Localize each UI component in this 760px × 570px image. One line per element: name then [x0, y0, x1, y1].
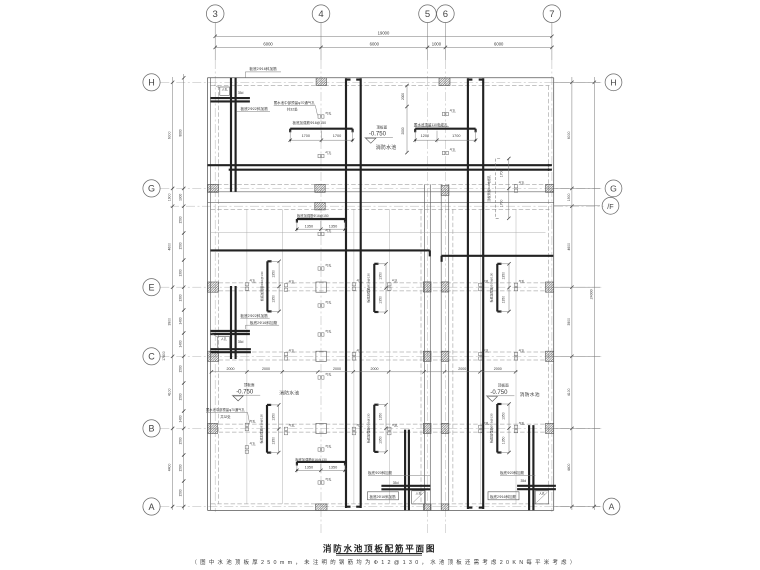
rebar vertical mid-right 1: [468, 78, 473, 509]
svg-text:气孔: 气孔: [392, 423, 398, 428]
note slab bottom 2D16 left tank: [368, 492, 399, 500]
axis bubble E left: [143, 279, 160, 296]
svg-text:1350: 1350: [502, 272, 506, 280]
axis stem 7: [551, 23, 553, 61]
vent hole: [318, 150, 331, 158]
wall left inner: [210, 78, 212, 511]
column outline grid4 x B: [316, 423, 326, 433]
svg-text:-0.750: -0.750: [490, 390, 508, 396]
svg-text:1300: 1300: [179, 294, 183, 301]
svg-text:消防水池: 消防水池: [279, 390, 299, 397]
svg-text:E: E: [148, 283, 154, 293]
wall left inner dashed: [218, 86, 220, 504]
beam row E upper dashed: [219, 282, 546, 284]
grid line H horizontal: [160, 81, 603, 83]
grid line B horizontal: [160, 427, 603, 429]
svg-text:1350: 1350: [272, 270, 276, 278]
wall right inner dashed: [548, 86, 550, 504]
note vent holes phi70 top: [274, 100, 318, 115]
svg-text:6000: 6000: [263, 41, 273, 46]
column outline grid4 x C: [316, 351, 326, 361]
column joint2 x G: [441, 186, 449, 196]
vent hole: [245, 441, 255, 453]
rebar vertical bottom-left tank 1: [404, 430, 406, 511]
svg-text:8000: 8000: [179, 129, 183, 136]
title underline thick: [336, 553, 422, 555]
tank right inner dashed left edge: [452, 209, 454, 504]
svg-text:2000: 2000: [333, 367, 341, 371]
svg-text:/F: /F: [607, 202, 614, 211]
svg-text:1500: 1500: [179, 242, 183, 249]
vent hole: [318, 300, 331, 307]
svg-text:6000: 6000: [168, 131, 172, 139]
svg-text:气孔: 气孔: [325, 263, 331, 268]
rebar bar with dim 1700+1700 left tank top: [289, 129, 355, 143]
wall band F upper: [208, 201, 554, 203]
svg-text:4400: 4400: [567, 464, 571, 472]
column joint2 x E: [441, 282, 449, 292]
svg-text:3900: 3900: [567, 318, 571, 326]
beam row C lower dashed: [219, 359, 546, 361]
svg-text:蓄水池中部预留φ70通气孔: 蓄水池中部预留φ70通气孔: [206, 407, 245, 412]
svg-text:板底2Φ16斜加筋: 板底2Φ16斜加筋: [250, 320, 278, 325]
rebar bar with dim 1350+1350 left tank G-E: [295, 219, 347, 231]
rebar+dim 1350x2 left tank lower-right: [366, 403, 388, 454]
manhole left-C: [211, 333, 230, 348]
wall top inner dashed: [211, 85, 550, 87]
rebar+dim 1350x2 right tank lower: [489, 402, 511, 454]
svg-text:人孔: 人孔: [222, 87, 228, 92]
svg-text:1200: 1200: [421, 134, 429, 138]
column joint1 x A: [423, 504, 431, 511]
joint wall 2 left edge: [440, 184, 442, 510]
svg-text:35d: 35d: [238, 91, 244, 95]
joint wall 1 right edge: [429, 184, 431, 510]
vent hole: [514, 279, 524, 291]
vent line left tank: [281, 209, 283, 504]
svg-text:1350: 1350: [502, 412, 506, 420]
column joint2 x C: [441, 351, 449, 361]
svg-text:G: G: [610, 184, 617, 194]
svg-text:气孔: 气孔: [250, 278, 256, 283]
svg-text:2000: 2000: [401, 93, 405, 100]
svg-text:气孔: 气孔: [325, 111, 331, 116]
rebar horizontal bottom-right 2: [517, 488, 556, 490]
rebar horizontal C cluster 4: [210, 351, 251, 353]
svg-text:H: H: [148, 78, 155, 88]
grid line 5 vertical: [427, 60, 429, 535]
svg-text:气孔: 气孔: [250, 419, 256, 424]
svg-text:1000: 1000: [432, 41, 442, 46]
rebar vertical mid-left 2: [356, 78, 361, 508]
svg-text:7: 7: [549, 9, 554, 20]
manhole bottom-mid: [412, 490, 426, 504]
vent hole: [245, 419, 255, 431]
svg-text:气孔: 气孔: [519, 348, 525, 353]
svg-text:板底Φ20斜加筋: 板底Φ20斜加筋: [500, 470, 525, 475]
rebar+dim 1350x2 left tank upper-right: [366, 262, 388, 314]
svg-text:1900: 1900: [567, 193, 571, 201]
column grid4 x G: [315, 184, 325, 192]
rebar horizontal bottom-right 1: [517, 485, 556, 487]
axis stem 5: [427, 23, 429, 61]
svg-text:气孔: 气孔: [450, 147, 456, 152]
svg-text:2000: 2000: [401, 127, 405, 134]
axis bubble 1/F right: [602, 197, 619, 214]
grid line F horizontal: [170, 205, 604, 207]
svg-text:-0.750: -0.750: [236, 389, 254, 395]
rebar bar with dim 1350+1350 left tank bottom: [295, 462, 347, 473]
column left wall x B: [208, 423, 218, 433]
svg-text:1350: 1350: [305, 466, 313, 470]
axis bubble C left: [143, 348, 160, 365]
rebar horizontal top-left 1: [210, 97, 250, 99]
svg-text:17800: 17800: [162, 351, 166, 361]
svg-text:4: 4: [318, 9, 323, 20]
svg-text:1400: 1400: [179, 340, 183, 347]
svg-text:（图中水池顶板厚250mm，未注明的钢筋均为Φ12@130，: （图中水池顶板厚250mm，未注明的钢筋均为Φ12@130，水池顶板还需考虑20…: [191, 558, 578, 566]
svg-text:气孔: 气孔: [325, 477, 331, 482]
beam row C upper dashed: [219, 351, 546, 353]
vent hole: [388, 278, 398, 290]
rebar+dim 1350x2 right tank upper: [489, 262, 511, 313]
joint wall 1 left edge: [423, 184, 425, 510]
svg-text:1300: 1300: [179, 269, 183, 276]
svg-text:气孔: 气孔: [325, 444, 331, 449]
svg-text:气孔: 气孔: [289, 423, 295, 428]
svg-text:2000: 2000: [458, 367, 466, 371]
rebar vertical bottom-right tank 2: [532, 425, 534, 510]
svg-text:35d: 35d: [393, 481, 399, 485]
rebar vertical left-top 2: [235, 78, 237, 192]
vent hole: [442, 108, 455, 116]
svg-text:A: A: [148, 502, 154, 512]
dimension chain top 6000/6000/1000/6000: [214, 41, 554, 49]
svg-text:1500: 1500: [179, 365, 183, 372]
column left wall x G: [208, 184, 219, 192]
vent hole: [284, 423, 294, 435]
svg-text:1700: 1700: [500, 200, 504, 208]
column outline grid4 x E: [316, 282, 326, 292]
vent line left tank: [246, 209, 248, 504]
vent line right tank: [515, 209, 517, 504]
svg-text:蓄水池顶留110电缆孔: 蓄水池顶留110电缆孔: [414, 122, 448, 127]
rebar horizontal long 1: [208, 164, 552, 167]
vent hole: [318, 228, 331, 236]
svg-text:板底2Φ22斜加筋: 板底2Φ22斜加筋: [240, 313, 268, 318]
wall bottom inner dashed: [211, 503, 550, 505]
svg-text:1700: 1700: [333, 134, 341, 138]
svg-text:4400: 4400: [168, 464, 172, 472]
svg-text:5: 5: [425, 9, 430, 20]
wall left outer: [207, 78, 209, 511]
dimension total 19000 top: [214, 30, 554, 38]
axis bubble B left: [143, 420, 160, 437]
note slab bottom 2D22 above C cluster: [240, 313, 269, 318]
svg-text:顶板预留110电缆孔: 顶板预留110电缆孔: [486, 175, 491, 202]
grid line G horizontal: [160, 187, 603, 189]
svg-text:1400: 1400: [179, 317, 183, 324]
svg-text:-0.750: -0.750: [369, 132, 387, 138]
svg-text:人孔: 人孔: [221, 336, 227, 341]
beam row B upper dashed: [219, 423, 546, 425]
svg-text:1350: 1350: [272, 295, 276, 303]
note slab bottom 2D16 right tank: [488, 492, 519, 500]
beam row E lower dashed: [219, 290, 546, 292]
axis bubble H left: [143, 74, 160, 91]
rebar vertical bottom-left tank 2: [408, 430, 410, 511]
vent hole: [284, 348, 294, 360]
rebar vertical bottom-right tank 1: [528, 425, 530, 510]
svg-text:气孔: 气孔: [450, 108, 456, 113]
column left wall x C: [208, 351, 219, 361]
note slab bottom 2D22 top-left: [237, 106, 270, 112]
svg-text:2000: 2000: [371, 367, 379, 371]
grid line 7 vertical: [551, 60, 553, 512]
column grid4 x A: [316, 504, 328, 511]
svg-text:板底加强筋Φ16@130: 板底加强筋Φ16@130: [366, 273, 371, 303]
vent hole: [352, 423, 362, 435]
vent hole: [245, 278, 255, 290]
svg-text:消防水池顶板配筋平面图: 消防水池顶板配筋平面图: [323, 542, 436, 553]
svg-text:6: 6: [443, 9, 448, 20]
svg-text:板底加强筋Φ16@130: 板底加强筋Φ16@130: [258, 414, 263, 444]
svg-text:4100: 4100: [168, 388, 172, 396]
rebar horizontal bottom-left 1: [381, 485, 430, 487]
wall band G upper dashed: [211, 183, 550, 185]
svg-text:1350: 1350: [271, 413, 275, 421]
grid line C horizontal: [160, 355, 603, 357]
wall right outer: [553, 78, 555, 511]
rebar horizontal bottom-left 2: [381, 488, 430, 490]
note slab bottom D20 left tank: [368, 470, 431, 476]
axis bubble 7 top: [543, 5, 561, 23]
svg-text:气孔: 气孔: [357, 423, 363, 428]
axis stem 4: [320, 23, 322, 61]
vent hole: [352, 348, 362, 360]
manhole bottom-right: [535, 490, 549, 504]
svg-text:气孔: 气孔: [519, 180, 525, 185]
rebar horizontal long 2: [229, 168, 552, 171]
vent line right tank: [479, 209, 481, 504]
vent hole: [388, 423, 398, 435]
dimension chain left coarse: [168, 77, 175, 510]
svg-text:顶板面: 顶板面: [376, 124, 387, 129]
column right wall x B: [546, 423, 554, 433]
svg-text:1400: 1400: [179, 415, 183, 422]
vent hole: [318, 477, 331, 484]
svg-text:气孔: 气孔: [392, 278, 398, 283]
svg-text:G: G: [148, 184, 155, 194]
vent hole: [514, 180, 524, 192]
axis stem 6: [444, 23, 446, 61]
svg-text:共32处: 共32处: [287, 107, 298, 112]
rebar+dim 1350x2 left tank lower-left: [258, 403, 280, 454]
extension line right: [554, 205, 600, 207]
svg-text:4600: 4600: [168, 243, 172, 251]
column joint1 x C: [423, 351, 431, 361]
tank left inner dashed right edge: [420, 209, 422, 504]
svg-text:板底加强筋Φ16@130: 板底加强筋Φ16@130: [489, 272, 494, 302]
svg-text:板底加强筋Φ16@150: 板底加强筋Φ16@150: [293, 120, 327, 125]
vent hole: [514, 348, 524, 360]
svg-text:气孔: 气孔: [357, 278, 363, 283]
svg-text:1350: 1350: [379, 272, 383, 280]
axis bubble A left: [143, 498, 160, 515]
rebar horizontal mid left tank: [210, 250, 429, 256]
vent line left tank: [353, 209, 355, 504]
svg-text:1350: 1350: [329, 466, 337, 470]
svg-text:3: 3: [213, 9, 218, 20]
elevation mark upper right tank: [364, 124, 396, 151]
svg-text:1350: 1350: [271, 437, 275, 445]
extension line right: [554, 286, 600, 288]
elevation mark lower left tank: [232, 382, 300, 401]
svg-text:6000: 6000: [370, 41, 380, 46]
axis bubble 5 top: [419, 5, 437, 23]
wall top outer: [208, 77, 554, 79]
svg-text:气孔: 气孔: [289, 348, 295, 353]
svg-text:板底2Φ16斜加筋: 板底2Φ16斜加筋: [490, 494, 517, 499]
rebar horizontal C cluster 3: [210, 348, 251, 350]
svg-text:1350: 1350: [379, 296, 383, 304]
column left wall x E: [208, 282, 219, 292]
svg-text:1700: 1700: [302, 134, 310, 138]
axis bubble G left: [143, 180, 160, 197]
svg-text:24000: 24000: [589, 289, 593, 299]
svg-text:人孔: 人孔: [415, 490, 421, 495]
svg-text:35d: 35d: [238, 340, 244, 344]
svg-text:气孔: 气孔: [325, 329, 331, 334]
svg-text:板底Φ20斜加筋: 板底Φ20斜加筋: [368, 470, 393, 475]
svg-text:消防水池: 消防水池: [376, 144, 397, 151]
svg-text:6000: 6000: [494, 41, 504, 46]
dim 1700x2 right tank G: [486, 157, 511, 220]
axis stem 3: [214, 23, 216, 61]
svg-text:蓄水池中部预留φ70通气孔: 蓄水池中部预留φ70通气孔: [274, 100, 316, 105]
vent line left tank: [388, 209, 390, 504]
svg-text:1900: 1900: [179, 194, 183, 201]
column joint1 x E: [423, 282, 431, 292]
rebar bar with dim 1200+1700 right tank top: [414, 129, 478, 143]
svg-text:1350: 1350: [329, 225, 337, 229]
svg-text:19000: 19000: [378, 30, 390, 35]
vent hole: [318, 263, 331, 270]
svg-text:气孔: 气孔: [289, 279, 295, 284]
dimension chain left fine: [179, 74, 186, 510]
svg-text:气孔: 气孔: [325, 300, 331, 305]
vent hole: [318, 111, 331, 119]
svg-text:1500: 1500: [179, 437, 183, 444]
svg-text:气孔: 气孔: [519, 279, 525, 284]
svg-text:3900: 3900: [168, 318, 172, 326]
svg-text:顶板面: 顶板面: [244, 382, 255, 387]
axis bubble 4 top: [312, 5, 330, 23]
svg-text:气孔: 气孔: [483, 348, 489, 353]
svg-text:1350: 1350: [379, 413, 383, 421]
column joint2 x A: [441, 504, 449, 511]
dimension chain right: [567, 77, 574, 510]
vent hole: [284, 279, 294, 291]
vent hole: [514, 421, 524, 433]
rebar horizontal top-left 2: [210, 100, 250, 102]
svg-text:4600: 4600: [567, 243, 571, 251]
rebar vertical mid-right 2: [479, 78, 484, 509]
svg-text:板底加强筋Φ16@150: 板底加强筋Φ16@150: [297, 213, 329, 218]
extension line right: [554, 355, 600, 357]
grid line 6 vertical: [444, 60, 446, 535]
svg-text:气孔: 气孔: [519, 421, 525, 426]
vent hole: [442, 147, 455, 155]
svg-text:气孔: 气孔: [483, 421, 489, 426]
column right wall x C: [546, 351, 554, 361]
axis bubble H right: [605, 74, 622, 91]
column joint2 x B: [441, 423, 449, 433]
svg-text:2000: 2000: [494, 367, 502, 371]
svg-text:1500: 1500: [179, 393, 183, 400]
svg-text:6000: 6000: [567, 131, 571, 139]
svg-text:气孔: 气孔: [357, 348, 363, 353]
svg-text:1350: 1350: [502, 296, 506, 304]
svg-text:顶板面: 顶板面: [498, 383, 509, 388]
rebar vertical mid-left 1: [346, 78, 351, 508]
vent hole: [318, 444, 331, 451]
wall bottom outer: [208, 509, 554, 511]
vent hole: [479, 421, 489, 433]
svg-text:气孔: 气孔: [325, 228, 331, 233]
svg-text:板底加强筋Φ16@130: 板底加强筋Φ16@130: [489, 413, 494, 443]
wall band F lower dashed: [211, 208, 550, 210]
svg-text:1900: 1900: [168, 193, 172, 201]
grid line A horizontal: [160, 506, 603, 508]
dim 2000 upper tank: [401, 84, 409, 155]
slab zone boundary line: [211, 231, 546, 233]
svg-text:35d: 35d: [521, 479, 527, 483]
wall band G lower: [208, 191, 554, 193]
note cable hole 110 right tank: [414, 122, 449, 127]
grid line 4 vertical: [320, 60, 322, 535]
svg-text:板底2Φ16斜加筋: 板底2Φ16斜加筋: [249, 66, 277, 71]
rebar vertical left-C 2: [235, 286, 237, 359]
dimension chain 2000 spacing: [210, 367, 518, 374]
svg-text:B: B: [148, 424, 154, 434]
svg-text:板底加强筋Φ16@130: 板底加强筋Φ16@130: [259, 271, 264, 301]
svg-text:1500: 1500: [179, 489, 183, 496]
grid line E horizontal: [160, 286, 603, 288]
axis bubble 3 top: [206, 5, 224, 23]
svg-text:C: C: [148, 352, 155, 362]
svg-text:4100: 4100: [567, 388, 571, 396]
note slab bottom D20 right tank: [500, 470, 535, 476]
svg-text:板底加强筋Φ16@130: 板底加强筋Φ16@130: [366, 413, 371, 443]
title underline thin: [336, 554, 422, 556]
svg-text:1700: 1700: [500, 170, 504, 178]
note slab bottom 2D16 top-left: [245, 66, 281, 78]
extension line right: [554, 81, 600, 83]
elevation mark lower right tank: [486, 383, 540, 402]
svg-text:H: H: [610, 78, 616, 88]
vent hole: [352, 278, 362, 290]
dimension total 24000 right: [589, 77, 596, 510]
svg-text:1500: 1500: [179, 464, 183, 471]
vent hole: [479, 279, 489, 291]
extension line right: [554, 187, 600, 189]
rebar vertical left-top 1: [230, 78, 232, 192]
rebar horizontal mid right tank: [442, 256, 554, 262]
svg-text:人孔: 人孔: [539, 490, 545, 495]
svg-text:板底2Φ22斜加筋: 板底2Φ22斜加筋: [240, 106, 268, 111]
column grid4 x H: [316, 78, 326, 86]
